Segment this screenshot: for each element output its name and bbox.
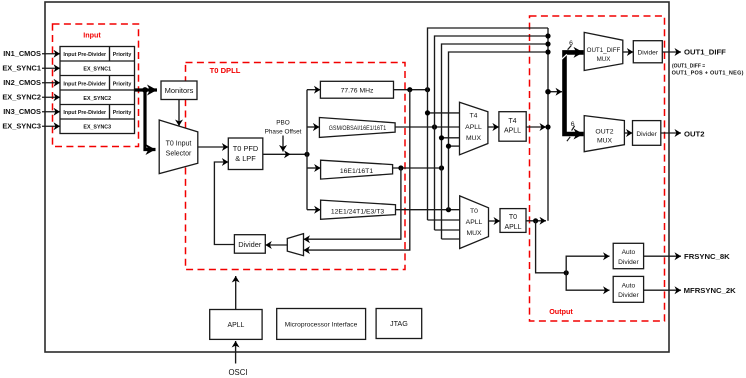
input channel stack block <box>60 47 135 134</box>
svg-text:T0 DPLL: T0 DPLL <box>210 66 241 75</box>
svg-text:Monitors: Monitors <box>165 86 194 95</box>
svg-text:APLL: APLL <box>227 322 244 329</box>
svg-text:12E1/24T1/E3/T3: 12E1/24T1/E3/T3 <box>331 208 384 215</box>
wire EX_SYNC1 to stack <box>42 67 60 69</box>
wire distribution vertical <box>306 90 308 210</box>
svg-text:Divider: Divider <box>636 131 657 138</box>
wire T0 mux to T0 APLL <box>489 220 501 222</box>
wire 77.76 branch down to feedback mux <box>304 90 410 250</box>
wire GSM output row to T4 mux <box>395 126 459 128</box>
svg-text:EX_SYNC3: EX_SYNC3 <box>2 122 41 131</box>
block Divider (T0 DPLL feedback) <box>234 235 265 254</box>
wire to 12E1 block <box>307 209 321 211</box>
Output section dashed box <box>530 16 665 321</box>
mux feedback selector <box>287 234 303 256</box>
wire v3 16E1 wrap-around <box>442 44 549 239</box>
block Auto Divider 1 <box>613 243 643 268</box>
block Microprocessor Interface <box>277 309 366 340</box>
svg-text:T0: T0 <box>509 214 517 221</box>
wire T0 mux input 4 <box>442 238 460 240</box>
svg-text:Selector: Selector <box>166 151 192 158</box>
wire 16E1 output row <box>393 167 442 169</box>
svg-text:Input Pre-Divider: Input Pre-Divider <box>63 110 106 116</box>
svg-text:OUT1_POS + OUT1_NEG): OUT1_POS + OUT1_NEG) <box>672 70 744 76</box>
wire T4 mux input 4 <box>449 145 460 147</box>
svg-text:Divider: Divider <box>618 292 639 299</box>
wire T4 mux input 3 <box>442 137 460 139</box>
svg-text:EX_SYNC2: EX_SYNC2 <box>83 96 111 102</box>
svg-text:T0 PFD: T0 PFD <box>233 144 258 153</box>
svg-text:T4: T4 <box>470 112 478 119</box>
thick wire down to selector <box>145 90 156 150</box>
wire PFD output to distribution node <box>263 153 307 155</box>
svg-text:Divider: Divider <box>618 259 639 266</box>
svg-text:& LPF: & LPF <box>235 154 256 163</box>
svg-text:OUT2: OUT2 <box>684 130 705 139</box>
wire to GSM block <box>307 126 319 128</box>
wire OUT2 mux to divider <box>624 132 632 134</box>
svg-text:T0: T0 <box>470 208 478 215</box>
wire 12E1 output row to T0 mux <box>396 209 460 211</box>
svg-text:Output: Output <box>549 307 573 316</box>
wire collector vertical <box>547 28 549 221</box>
block JTAG <box>376 309 422 339</box>
svg-text:MUX: MUX <box>466 135 482 142</box>
chip outer border <box>45 2 669 352</box>
wire feedback mux to Divider <box>265 244 287 246</box>
wire T4 mux input 1 <box>428 112 460 114</box>
wire OUT1 mux to divider <box>623 51 634 53</box>
svg-text:EX_SYNC1: EX_SYNC1 <box>2 64 41 73</box>
svg-text:T0 Input: T0 Input <box>166 141 192 148</box>
svg-text:OSCI: OSCI <box>228 368 247 377</box>
wire PBO arrow down <box>282 136 284 152</box>
wire v4 12E1 wrap-around <box>449 52 549 210</box>
wire Divider to PFD feedback <box>214 162 234 245</box>
svg-text:Priority: Priority <box>113 52 132 58</box>
mux OUT2 MUX <box>584 116 624 152</box>
wire OSCI to APLL <box>235 341 237 364</box>
block APLL <box>210 310 262 340</box>
wire selector to PFD <box>198 146 229 148</box>
svg-text:Input Pre-Divider: Input Pre-Divider <box>63 81 106 87</box>
wire to MFRSYNC_2K pin <box>644 289 681 291</box>
svg-text:EX_SYNC1: EX_SYNC1 <box>83 66 111 72</box>
svg-text:EX_SYNC3: EX_SYNC3 <box>83 124 111 130</box>
junction on thick wire <box>142 87 148 93</box>
block T0 PFD & LPF <box>228 138 262 170</box>
mux T0 APLL MUX <box>460 196 489 249</box>
block 12E1/24T1/E3/T3 <box>321 200 396 219</box>
svg-text:Divider: Divider <box>238 240 262 249</box>
block Monitors <box>161 81 197 100</box>
mux T0 Input Selector <box>159 120 198 174</box>
wire to OUT2 pin <box>661 132 681 134</box>
T0 DPLL section dashed box <box>186 63 406 270</box>
block Auto Divider 2 <box>613 276 643 302</box>
svg-text:Priority: Priority <box>113 81 132 87</box>
svg-text:77.76 MHz: 77.76 MHz <box>341 87 374 94</box>
svg-text:IN1_CMOS: IN1_CMOS <box>3 49 41 58</box>
wire 16E1 branch down to feedback mux <box>304 168 401 239</box>
wire T0 mux input 3 <box>435 229 460 231</box>
thick wire stack to Monitors <box>135 88 158 91</box>
wire T0 APLL branch to auto dividers <box>536 221 567 273</box>
svg-text:MUX: MUX <box>597 138 613 145</box>
wire v2 GSM wrap-around <box>435 36 549 230</box>
svg-text:IN3_CMOS: IN3_CMOS <box>3 107 41 116</box>
wire to FRSYNC_8K pin <box>644 255 681 257</box>
wire EX_SYNC3 to stack <box>42 125 60 127</box>
block 16E1/16T1 <box>321 160 393 179</box>
svg-text:Divider: Divider <box>638 49 659 56</box>
svg-text:Microprocessor Interface: Microprocessor Interface <box>285 322 358 329</box>
wire IN1_CMOS to stack <box>42 53 60 55</box>
svg-text:APLL: APLL <box>466 219 483 226</box>
svg-text:OUT2: OUT2 <box>595 128 613 135</box>
svg-text:MUX: MUX <box>466 230 482 237</box>
svg-text:GSM/OBSAI/16E1/16T1: GSM/OBSAI/16E1/16T1 <box>329 126 387 132</box>
svg-text:T4: T4 <box>508 118 516 125</box>
wire T0 APLL to collector <box>526 220 546 222</box>
wire to 16E1 block <box>307 167 321 169</box>
wire IN3_CMOS to stack <box>42 111 60 113</box>
svg-text:APLL: APLL <box>504 128 521 135</box>
svg-text:Auto: Auto <box>622 249 636 256</box>
wire Monitors to selector <box>178 100 180 127</box>
Input section dashed box <box>53 24 139 147</box>
svg-text:MUX: MUX <box>597 56 611 63</box>
svg-text:Input: Input <box>83 31 101 40</box>
svg-text:MFRSYNC_2K: MFRSYNC_2K <box>684 286 737 295</box>
block T4 APLL <box>499 112 526 142</box>
wire to 77.76 MHz <box>307 89 320 91</box>
svg-text:EX_SYNC2: EX_SYNC2 <box>2 93 41 102</box>
wire T4 mux to T4 APLL <box>488 126 499 128</box>
svg-text:OUT1_DIFF: OUT1_DIFF <box>684 48 726 57</box>
mux T4 APLL MUX <box>460 102 488 155</box>
svg-text:FRSYNC_8K: FRSYNC_8K <box>684 252 730 261</box>
svg-text:APLL: APLL <box>504 224 521 231</box>
wire APLL up to T0 DPLL <box>235 276 237 310</box>
svg-text:APLL: APLL <box>465 124 482 131</box>
node distribution junction <box>304 152 309 157</box>
block 77.76 MHz <box>320 81 393 98</box>
wire to OUT1_DIFF pin <box>662 51 681 53</box>
thick bus to output muxes <box>565 52 584 134</box>
svg-text:(OUT1_DIFF =: (OUT1_DIFF = <box>672 63 705 69</box>
wire T0 mux input 2 <box>428 219 460 221</box>
svg-text:PBO: PBO <box>276 119 290 126</box>
svg-text:Input Pre-Divider: Input Pre-Divider <box>63 52 106 58</box>
svg-text:Priority: Priority <box>113 110 132 116</box>
block T0 APLL <box>500 209 526 233</box>
wire 77.76 output row <box>394 89 428 91</box>
svg-text:Auto: Auto <box>622 282 636 289</box>
wire collector tap to bus <box>548 91 562 93</box>
wire IN2_CMOS to stack <box>42 82 60 84</box>
block Divider OUT2 <box>633 121 661 146</box>
wire T4 APLL to collector <box>526 126 546 128</box>
wire v1 77.76 wrap-around <box>428 28 549 220</box>
svg-text:OUT1_DIFF: OUT1_DIFF <box>587 47 621 54</box>
svg-text:16E1/16T1: 16E1/16T1 <box>340 168 373 175</box>
block Divider OUT1 <box>633 41 662 63</box>
wire EX_SYNC2 to stack <box>42 96 60 98</box>
svg-text:Phase Offset: Phase Offset <box>265 128 302 135</box>
svg-text:JTAG: JTAG <box>390 319 408 328</box>
mux OUT1_DIFF MUX <box>584 32 623 70</box>
block GSM/OBSAI <box>319 118 395 138</box>
svg-text:IN2_CMOS: IN2_CMOS <box>3 78 41 87</box>
